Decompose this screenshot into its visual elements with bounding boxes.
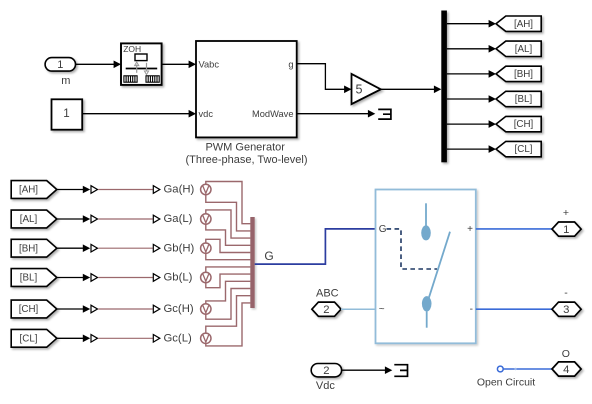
svg-text:3: 3 bbox=[563, 304, 569, 316]
svg-text:[BL]: [BL] bbox=[515, 94, 533, 105]
svg-text:ZOH: ZOH bbox=[123, 44, 141, 54]
svg-text:1: 1 bbox=[563, 224, 569, 236]
svg-text:-: - bbox=[564, 287, 568, 299]
svg-text:Gb(H): Gb(H) bbox=[164, 242, 195, 254]
svg-text:Ga(L): Ga(L) bbox=[164, 213, 193, 225]
svg-text:[AL]: [AL] bbox=[20, 214, 38, 225]
svg-text:[BH]: [BH] bbox=[514, 69, 533, 80]
svg-text:ABC: ABC bbox=[316, 287, 339, 299]
svg-text:Vdc: Vdc bbox=[316, 380, 335, 392]
svg-text:2: 2 bbox=[323, 365, 329, 377]
svg-text:1: 1 bbox=[57, 59, 63, 71]
svg-text:PWM Generator: PWM Generator bbox=[205, 141, 285, 153]
svg-text:[AL]: [AL] bbox=[515, 44, 533, 55]
svg-text:[CH]: [CH] bbox=[514, 119, 534, 130]
svg-text:m: m bbox=[61, 75, 70, 87]
svg-text:[AH]: [AH] bbox=[19, 185, 38, 196]
svg-text:Open Circuit: Open Circuit bbox=[477, 377, 535, 389]
svg-text:vdc: vdc bbox=[199, 109, 214, 119]
svg-text:[CH]: [CH] bbox=[19, 304, 39, 315]
svg-text:Ga(H): Ga(H) bbox=[164, 184, 195, 196]
svg-text:[AH]: [AH] bbox=[514, 19, 533, 30]
svg-text:Gb(L): Gb(L) bbox=[164, 272, 193, 284]
svg-text:5: 5 bbox=[355, 83, 362, 97]
svg-text:[BL]: [BL] bbox=[20, 273, 38, 284]
svg-text:Gc(L): Gc(L) bbox=[164, 333, 192, 345]
svg-text:O: O bbox=[562, 348, 570, 360]
svg-text:ModWave: ModWave bbox=[252, 109, 294, 119]
svg-text:[BH]: [BH] bbox=[19, 243, 38, 254]
svg-text:~: ~ bbox=[379, 304, 385, 315]
svg-text:G: G bbox=[264, 249, 273, 263]
svg-text:+: + bbox=[467, 224, 473, 235]
svg-text:4: 4 bbox=[563, 364, 569, 376]
svg-text:(Three-phase, Two-level): (Three-phase, Two-level) bbox=[185, 154, 307, 166]
svg-text:1: 1 bbox=[63, 107, 69, 120]
svg-text:[CL]: [CL] bbox=[515, 144, 533, 155]
svg-text:-: - bbox=[470, 304, 473, 315]
svg-text:g: g bbox=[288, 60, 293, 70]
svg-text:Gc(H): Gc(H) bbox=[164, 303, 194, 315]
svg-text:G: G bbox=[379, 224, 387, 235]
svg-text:+: + bbox=[563, 207, 569, 219]
svg-text:[CL]: [CL] bbox=[20, 333, 38, 344]
svg-text:2: 2 bbox=[323, 304, 329, 316]
svg-text:Vabc: Vabc bbox=[199, 60, 220, 70]
